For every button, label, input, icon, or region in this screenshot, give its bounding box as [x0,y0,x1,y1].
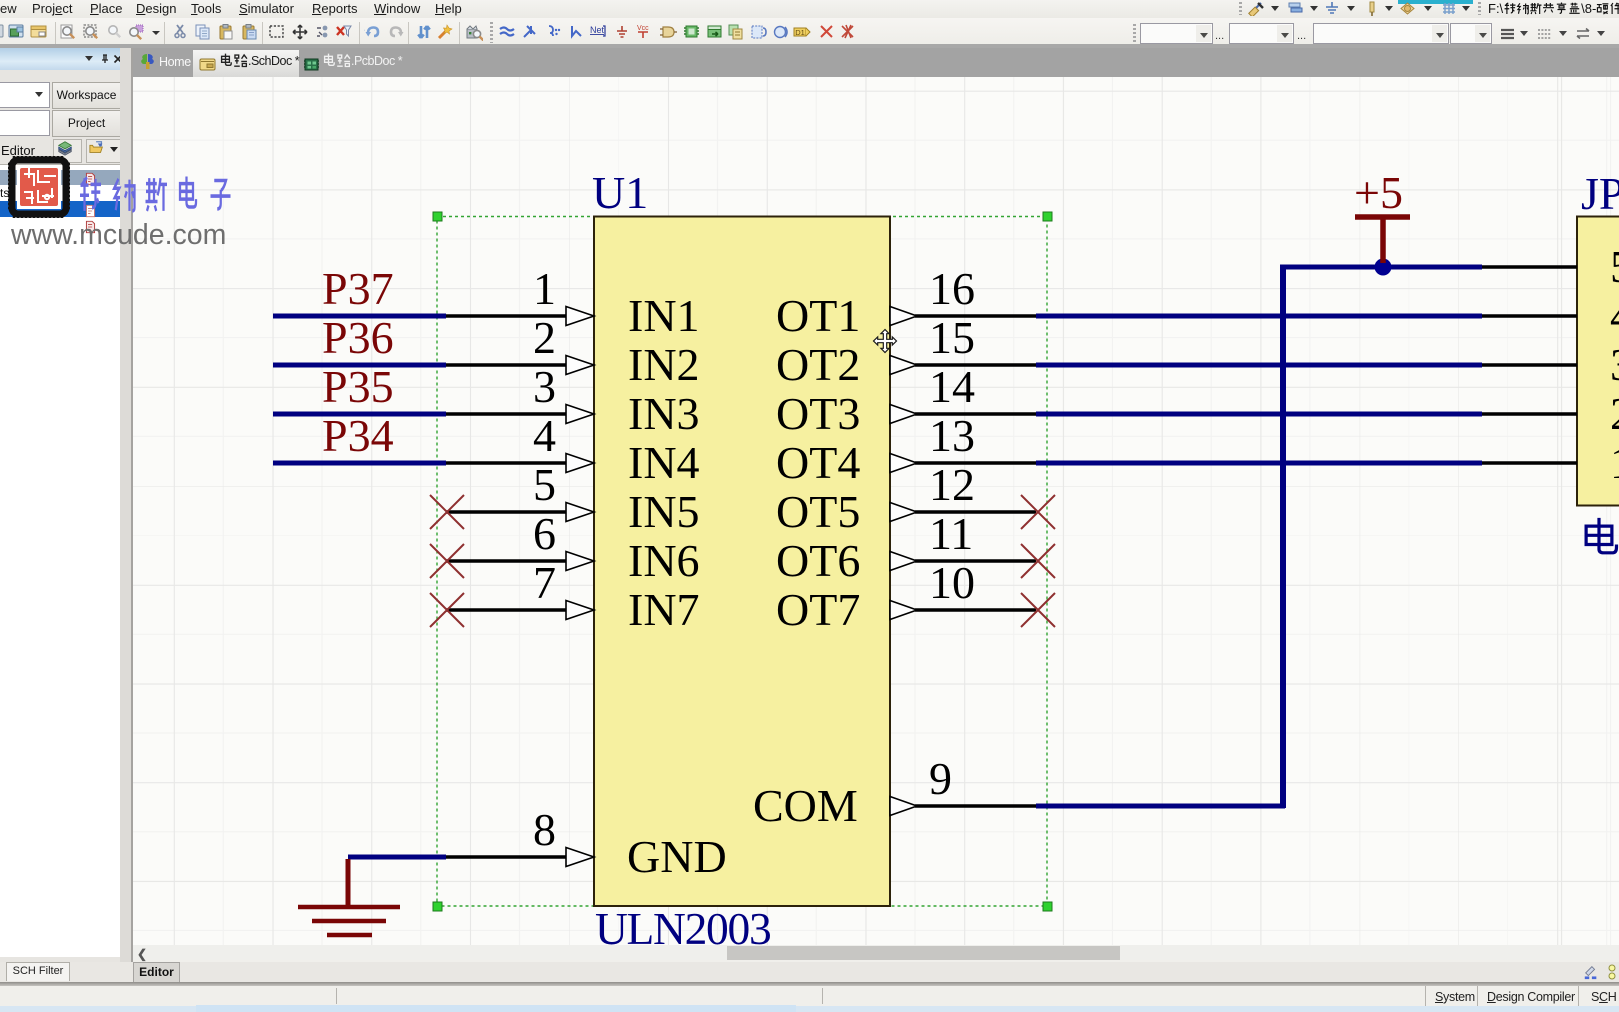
pin 8 GND [446,804,594,867]
svg-text:P36: P36 [322,312,394,363]
wire OT1 output to JP [1036,314,1482,319]
pin 6 IN6 [446,508,594,571]
svg-text:7: 7 [533,557,556,608]
svg-text:1: 1 [1610,437,1619,488]
power +5 symbol [1354,167,1410,263]
svg-text:OT2: OT2 [776,339,860,390]
wire +5 rail to JP [1280,265,1482,270]
JP pin 3 [1482,339,1619,390]
pin 16 OT1 [890,263,1036,326]
svg-text:OT1: OT1 [776,290,860,341]
tree area [0,164,120,957]
JP pin 5 [1482,241,1619,292]
status bar [0,986,1619,1006]
pin 5 IN5 [446,459,594,522]
svg-text:13: 13 [929,410,975,461]
no-ERC marker pin 5 [430,495,464,529]
mouse move cursor [874,330,897,353]
wire GND net [348,855,446,860]
no-ERC marker pin 6 [430,544,464,578]
pin 7 IN7 [446,557,594,620]
svg-text:IN2: IN2 [628,339,700,390]
pin 15 OT2 [890,312,1036,375]
pin 3 IN3 [446,361,594,424]
svg-text:15: 15 [929,312,975,363]
svg-text:OT6: OT6 [776,535,860,586]
pin 12 OT5 [890,459,1036,522]
svg-text:2: 2 [1610,388,1619,439]
wire net P34 to pin [273,461,446,466]
h scrollbar of schematic [133,945,1619,960]
JP pin 1 [1482,437,1619,488]
svg-text:P34: P34 [322,410,394,461]
svg-text:4: 4 [533,410,556,461]
svg-text:IN5: IN5 [628,486,700,537]
svg-text:IN1: IN1 [628,290,700,341]
svg-text:IN7: IN7 [628,584,700,635]
window title text [1488,1,1619,16]
svg-text:3: 3 [533,361,556,412]
wire net P36 to pin [273,363,446,368]
svg-text:+5: +5 [1354,167,1403,218]
svg-text:11: 11 [929,508,973,559]
editor tab row [0,962,1619,982]
splitter [120,48,131,982]
active tab [193,50,299,77]
separator [0,982,1619,986]
combo + workspace [0,82,50,108]
pin 1 IN1 [446,263,594,326]
pin 13 OT4 [890,410,1036,473]
svg-text:IN6: IN6 [628,535,700,586]
IC U1 body (ULN2003) [594,217,890,907]
svg-text:P35: P35 [322,361,394,412]
pin 11 OT6 [890,508,1036,571]
no-ERC marker pin 12 [1021,495,1055,529]
svg-text:U1: U1 [592,167,648,218]
connector JP body [1577,217,1619,506]
selection box around U1 [433,212,1052,911]
svg-text:OT5: OT5 [776,486,860,537]
svg-text:IN4: IN4 [628,437,700,488]
svg-text:12: 12 [929,459,975,510]
JP pin 2 [1482,388,1619,439]
svg-text:COM: COM [753,780,858,831]
pin 10 OT7 [890,557,1036,620]
no-ERC marker pin 11 [1021,544,1055,578]
bottom blue strip [0,1006,1619,1012]
wire OT3 output to JP [1036,412,1482,417]
svg-text:16: 16 [929,263,975,314]
wire OT4 output to JP [1036,461,1482,466]
no-ERC marker pin 10 [1021,593,1055,627]
junction +5 node [1375,259,1392,276]
svg-text:IN3: IN3 [628,388,700,439]
svg-text:3: 3 [1610,339,1619,390]
svg-text:2: 2 [533,312,556,363]
JP caption glyph [1586,518,1616,553]
svg-text:9: 9 [929,753,952,804]
svg-text:6: 6 [533,508,556,559]
wire vertical +5 bus [1280,267,1286,808]
panel header [0,48,133,70]
svg-text:OT3: OT3 [776,388,860,439]
svg-text:4: 4 [1610,290,1619,341]
svg-text:P37: P37 [322,263,394,314]
svg-text:14: 14 [929,361,975,412]
pin 4 IN4 [446,410,594,473]
pin 2 IN2 [446,312,594,375]
no-ERC marker pin 7 [430,593,464,627]
svg-text:8: 8 [533,804,556,855]
svg-text:OT7: OT7 [776,584,860,635]
pin 9 COM [890,753,1036,816]
wire net P35 to pin [273,412,446,417]
svg-text:10: 10 [929,557,975,608]
JP pin 4 [1482,290,1619,341]
svg-text:OT4: OT4 [776,437,860,488]
svg-text:5: 5 [1610,241,1619,292]
svg-text:1: 1 [533,263,556,314]
svg-text:JP: JP [1581,168,1619,219]
wire COM to +5 bus [1036,804,1285,809]
wire OT2 output to JP [1036,363,1482,368]
svg-text:5: 5 [533,459,556,510]
svg-text:GND: GND [627,831,727,882]
cyan strip top right [1398,0,1473,4]
wire net P37 to pin [273,314,446,319]
ground symbol [298,859,400,935]
pin 14 OT3 [890,361,1036,424]
